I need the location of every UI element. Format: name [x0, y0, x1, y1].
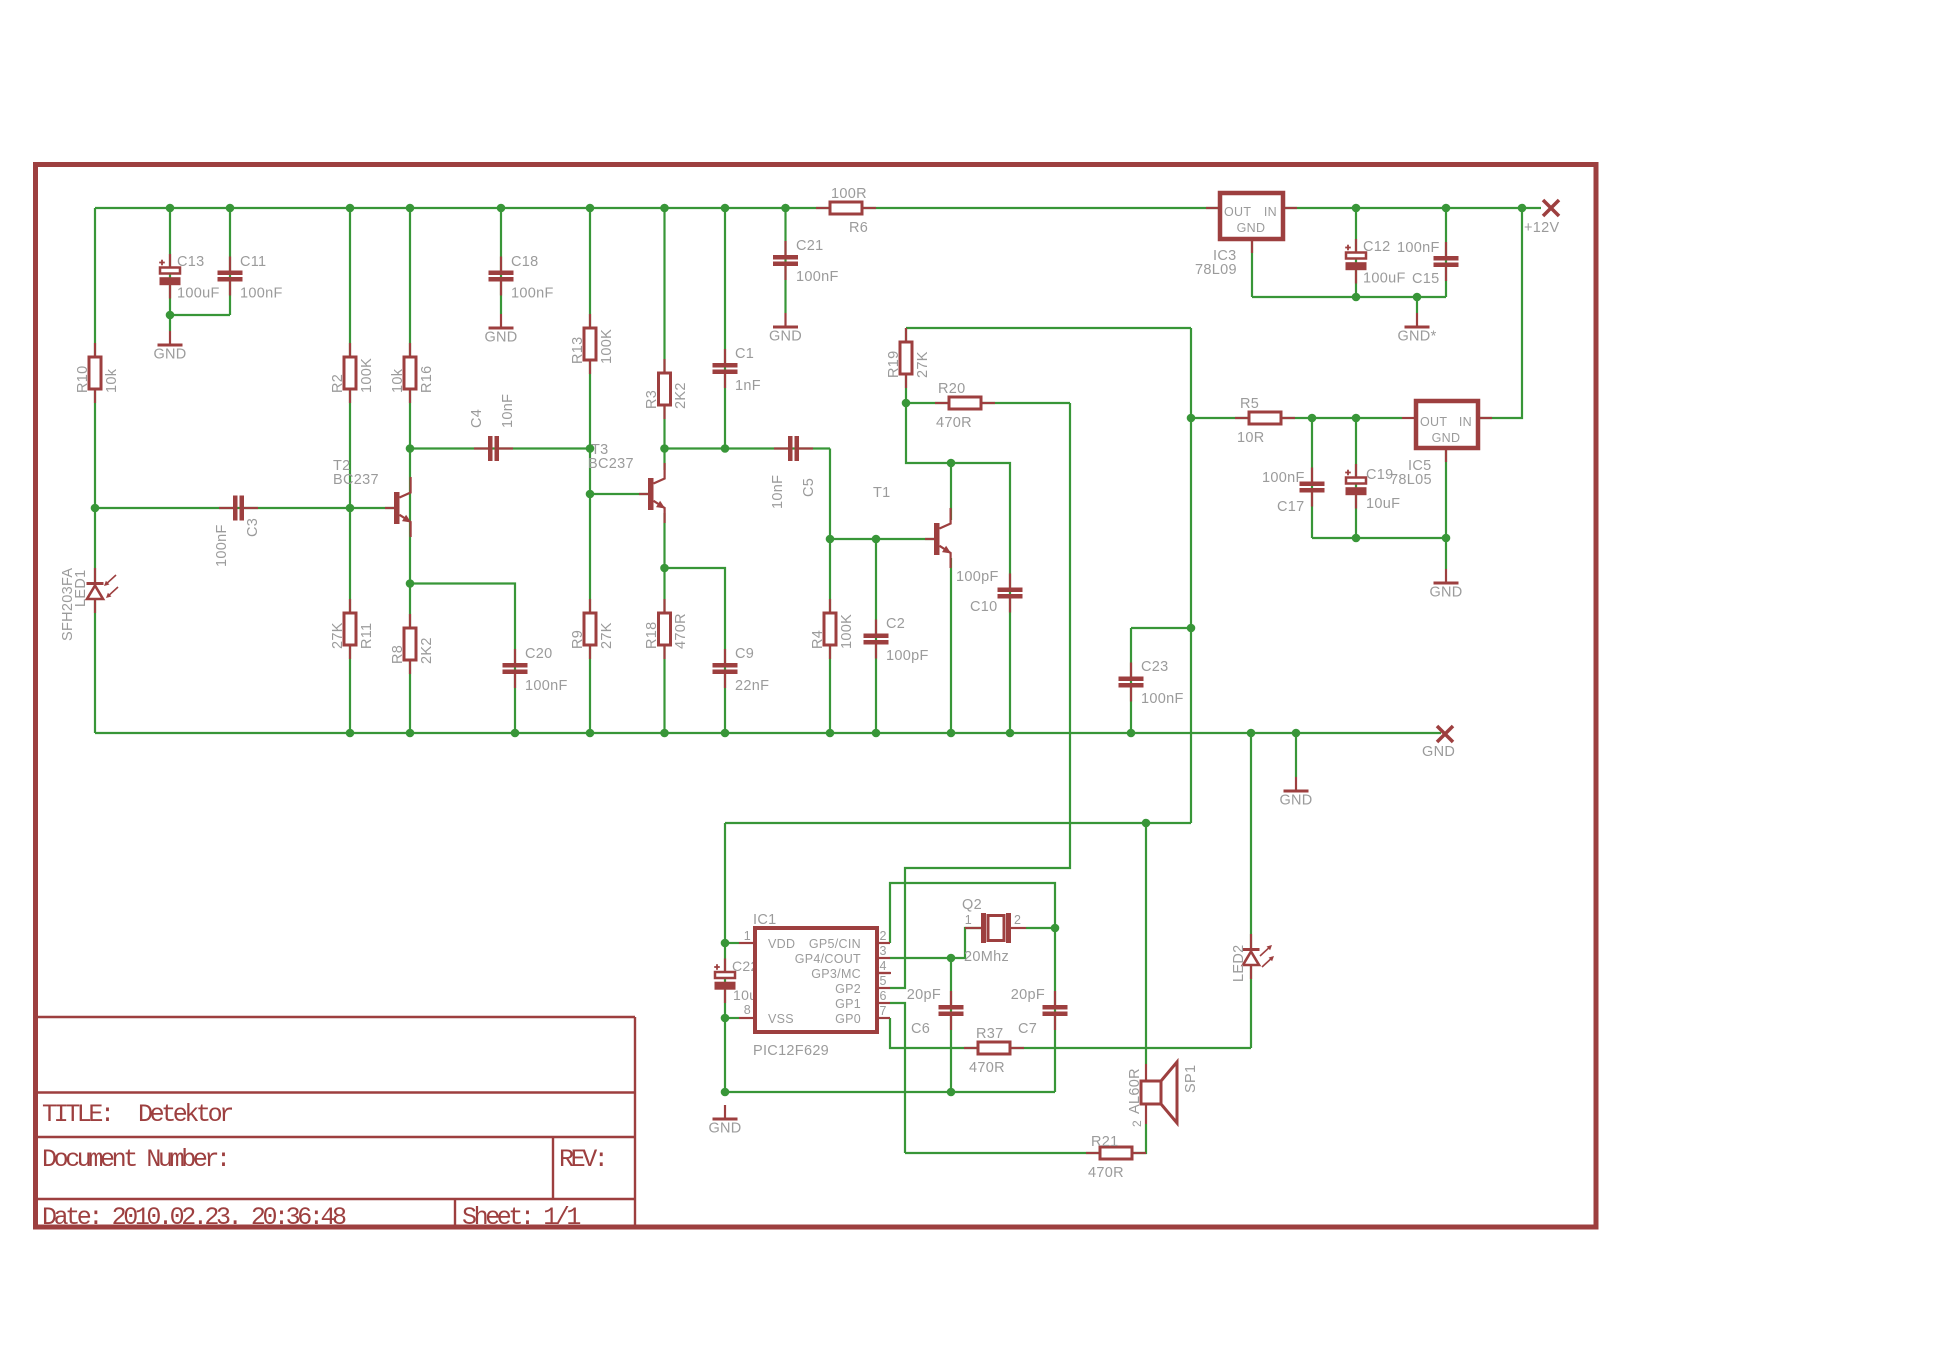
wire T1 emitter down	[950, 558, 952, 733]
capacitor C17	[1262, 468, 1325, 516]
ground below C21	[769, 313, 802, 345]
wire R13-R9 column	[589, 208, 591, 733]
wire crystal left jog	[951, 928, 981, 958]
wire LED2 column	[1250, 733, 1252, 1048]
svg-text:2: 2	[1130, 1120, 1144, 1127]
capacitor C4	[469, 394, 516, 461]
svg-text:2K2: 2K2	[673, 382, 689, 409]
resistor R3	[644, 359, 689, 419]
wire C23 top link	[1131, 627, 1191, 629]
svg-text:7: 7	[880, 1004, 887, 1018]
IC1 pin 8 number	[744, 1003, 751, 1017]
svg-text:C20: C20	[525, 646, 553, 662]
wire speaker bottom to R21	[905, 1124, 1146, 1153]
ground right of GND rail	[1279, 777, 1312, 809]
resistor R37	[964, 1026, 1024, 1076]
microcontroller IC1 PIC12F629	[739, 912, 890, 1059]
svg-text:C15: C15	[1412, 271, 1440, 287]
wire C12-C15 bottom join	[1252, 296, 1446, 298]
svg-text:20Mhz: 20Mhz	[964, 949, 1009, 965]
capacitor C10	[956, 569, 1023, 615]
svg-text:GP2: GP2	[835, 982, 861, 996]
IC1 pin 6 number	[880, 989, 887, 1003]
wire C6 column	[950, 958, 952, 1092]
wire R3-T3 column	[663, 208, 665, 470]
svg-text:OUT: OUT	[1420, 415, 1447, 429]
wire gnd stub right	[1295, 733, 1297, 777]
svg-text:1: 1	[744, 929, 751, 943]
svg-text:100R: 100R	[831, 186, 867, 202]
wire pin1 stub link	[725, 942, 739, 944]
crystal Q2 20MHz	[962, 897, 1026, 965]
capacitor C3	[214, 496, 261, 568]
svg-text:GP4/COUT: GP4/COUT	[795, 952, 861, 966]
svg-text:R11: R11	[359, 623, 375, 649]
svg-text:C2: C2	[886, 616, 905, 632]
wire pin8 stub link	[725, 1017, 739, 1019]
title block Document Number text	[42, 1145, 228, 1174]
svg-text:1nF: 1nF	[735, 378, 761, 394]
svg-text:IN: IN	[1459, 415, 1472, 429]
capacitor C5	[770, 436, 817, 509]
svg-text:C7: C7	[1018, 1021, 1037, 1037]
wire left column from +9V rail	[94, 208, 96, 733]
IC1 pin 2 number	[880, 929, 887, 943]
svg-text:100nF: 100nF	[525, 678, 568, 694]
svg-text:R21: R21	[1091, 1134, 1119, 1150]
svg-text:10R: 10R	[1237, 430, 1265, 446]
resistor R21	[1086, 1134, 1146, 1181]
IC1 pin 1 number	[744, 929, 751, 943]
svg-text:C1: C1	[735, 346, 754, 362]
svg-text:10k: 10k	[104, 368, 120, 393]
capacitor C18	[489, 254, 554, 302]
capacitor C6	[907, 987, 964, 1037]
svg-text:100nF: 100nF	[214, 524, 230, 567]
svg-text:REV:: REV:	[559, 1145, 605, 1174]
wire T1 collector riser	[950, 463, 952, 520]
wire IC5 gnd stem	[1445, 448, 1447, 569]
transistor T1	[873, 485, 951, 568]
svg-text:C11: C11	[240, 254, 266, 270]
resistor R13	[570, 314, 615, 374]
wire R20 node to C10	[906, 403, 1010, 733]
svg-text:3: 3	[880, 944, 887, 958]
svg-text:10k: 10k	[390, 368, 406, 393]
svg-text:GND*: GND*	[1397, 329, 1436, 345]
svg-text:10nF: 10nF	[500, 394, 516, 428]
terminal +12V	[1524, 200, 1559, 236]
svg-text:20pF: 20pF	[907, 987, 941, 1003]
title block box	[38, 1017, 635, 1227]
resistor R19	[886, 328, 931, 388]
wire GP4 line	[890, 957, 951, 959]
svg-text:27K: 27K	[599, 622, 615, 649]
svg-text:R13: R13	[570, 337, 586, 365]
svg-text:27K: 27K	[330, 622, 346, 649]
svg-text:GND: GND	[1279, 793, 1312, 809]
wire +9V top rail	[95, 207, 1541, 209]
svg-text:C21: C21	[796, 238, 824, 254]
svg-text:GND: GND	[1429, 585, 1462, 601]
svg-text:470R: 470R	[969, 1060, 1005, 1076]
svg-text:100uF: 100uF	[177, 286, 220, 302]
svg-text:LED1: LED1	[73, 570, 89, 607]
capacitor C12	[1345, 239, 1405, 287]
transistor T3	[588, 442, 665, 523]
terminal GND	[1422, 726, 1455, 760]
wire VDD horizontal net	[725, 822, 1191, 824]
capacitor C15	[1397, 240, 1459, 287]
svg-text:R6: R6	[849, 220, 868, 236]
svg-text:TITLE:: TITLE:	[42, 1100, 112, 1129]
svg-text:100nF: 100nF	[511, 286, 554, 302]
svg-text:100pF: 100pF	[956, 569, 999, 585]
resistor R18	[644, 599, 689, 659]
photodiode LED1	[60, 568, 118, 641]
resistor R10	[75, 343, 120, 403]
svg-text:GP3/MC: GP3/MC	[811, 967, 861, 981]
resistor R20	[935, 381, 995, 431]
svg-text:R3: R3	[644, 390, 660, 409]
wire T3 emitter to R18	[663, 513, 665, 733]
capacitor C13	[159, 254, 219, 302]
svg-text:GND: GND	[769, 329, 802, 345]
svg-text:100uF: 100uF	[1363, 271, 1406, 287]
capacitor C23	[1119, 659, 1184, 707]
svg-text:1: 1	[965, 913, 972, 927]
wire C23 column	[1130, 628, 1132, 733]
svg-text:GND: GND	[1432, 431, 1461, 445]
svg-text:100nF: 100nF	[240, 286, 283, 302]
svg-text:Sheet: 1/1: Sheet: 1/1	[462, 1203, 580, 1232]
resistor R8	[390, 614, 435, 674]
svg-text:GP1: GP1	[835, 997, 861, 1011]
resistor R2	[330, 343, 375, 403]
svg-text:470R: 470R	[936, 415, 972, 431]
wire C9 branch	[665, 568, 726, 733]
wire C21 column	[784, 208, 786, 313]
wire C18 column	[500, 208, 502, 314]
resistor R5	[1235, 396, 1295, 446]
wire C20 branch	[410, 584, 515, 734]
svg-text:470R: 470R	[673, 613, 689, 649]
svg-text:R37: R37	[976, 1026, 1004, 1042]
ground below IC5	[1429, 569, 1462, 601]
svg-text:C10: C10	[970, 599, 998, 615]
capacitor C20	[503, 646, 568, 694]
svg-text:GP5/CIN: GP5/CIN	[809, 937, 861, 951]
wire GP5 riser	[890, 883, 1055, 943]
wire GND* stem	[1416, 297, 1418, 313]
wire VDD column	[724, 823, 726, 1092]
capacitor C19	[1345, 464, 1400, 512]
IC1 pin 7 number	[880, 1004, 887, 1018]
speaker SP1 AL60R	[1127, 1062, 1199, 1127]
svg-text:100nF: 100nF	[1397, 240, 1440, 256]
svg-text:27K: 27K	[915, 351, 931, 378]
resistor R6	[816, 186, 876, 236]
svg-text:100K: 100K	[359, 358, 375, 393]
wire R4 column	[829, 539, 831, 733]
svg-text:10uF: 10uF	[1366, 496, 1400, 512]
wire C5 line	[665, 447, 831, 449]
capacitor C1	[713, 346, 761, 394]
svg-text:IN: IN	[1264, 205, 1277, 219]
wire R19 column	[905, 328, 907, 403]
svg-text:BC237: BC237	[333, 472, 379, 488]
svg-text:R20: R20	[938, 381, 966, 397]
ground below C18	[484, 314, 517, 346]
svg-text:+12V: +12V	[1524, 220, 1559, 236]
wire GP1 net	[890, 1003, 905, 1153]
capacitor C2	[864, 616, 929, 664]
voltage regulator IC5 78L05	[1390, 401, 1492, 488]
svg-text:GND: GND	[1237, 221, 1266, 235]
crystal pin 1 number	[965, 913, 972, 927]
svg-text:10nF: 10nF	[770, 475, 786, 509]
wire GP2 net riser	[890, 403, 1070, 988]
svg-text:100K: 100K	[599, 329, 615, 364]
crystal pin 2 number	[1014, 913, 1021, 927]
svg-text:C13: C13	[177, 254, 205, 270]
resistor R16	[390, 343, 435, 403]
wire C1 column	[724, 208, 726, 449]
wire crystal right link	[1026, 927, 1055, 929]
wire 5V vertical net	[1190, 328, 1192, 823]
svg-text:100K: 100K	[839, 614, 855, 649]
svg-text:78L09: 78L09	[1195, 262, 1237, 278]
svg-text:LED2: LED2	[1231, 945, 1247, 982]
wire C11 column	[229, 208, 231, 315]
title block Sheet text	[462, 1203, 580, 1232]
wire C15 column	[1445, 208, 1447, 297]
wire C2 column	[875, 539, 877, 733]
wire 5V gnd join	[1312, 537, 1446, 539]
resistor R9	[570, 599, 615, 659]
title block TITLE text	[42, 1100, 232, 1129]
IC1 pin 3 number	[880, 944, 887, 958]
capacitor C21	[773, 238, 839, 285]
wire C7 column	[1054, 928, 1056, 1092]
resistor R11	[330, 599, 375, 659]
svg-text:100nF: 100nF	[796, 269, 839, 285]
IC1 pin 5 number	[880, 974, 887, 988]
svg-text:6: 6	[880, 989, 887, 1003]
wire R19 top link	[906, 327, 1191, 329]
svg-text:R19: R19	[886, 351, 902, 379]
svg-text:100pF: 100pF	[886, 648, 929, 664]
wire C17 column	[1311, 418, 1313, 538]
svg-text:PIC12F629: PIC12F629	[753, 1043, 829, 1059]
svg-text:2: 2	[880, 929, 887, 943]
svg-text:IC1: IC1	[753, 912, 776, 928]
wire C12 column	[1355, 208, 1357, 297]
ground GND* below C12/C15	[1397, 313, 1436, 345]
wire IC5 in link	[1478, 208, 1522, 418]
svg-text:470R: 470R	[1088, 1165, 1124, 1181]
svg-text:AL60R: AL60R	[1127, 1068, 1143, 1114]
wire R2 column	[349, 208, 351, 733]
ground below C13/C11	[153, 315, 186, 363]
wire C4 line	[410, 447, 590, 449]
svg-text:C18: C18	[511, 254, 539, 270]
capacitor C9	[713, 646, 770, 694]
capacitor C11	[218, 254, 283, 302]
svg-text:22nF: 22nF	[735, 678, 769, 694]
svg-text:4: 4	[880, 959, 887, 973]
svg-text:C12: C12	[1363, 239, 1391, 255]
svg-text:100nF: 100nF	[1262, 470, 1305, 486]
title block Date text	[42, 1203, 346, 1232]
svg-text:GND: GND	[153, 347, 186, 363]
svg-text:GND: GND	[1422, 744, 1455, 760]
wire T3 base line	[590, 493, 648, 495]
svg-text:R2: R2	[330, 374, 346, 393]
wire IC3 gnd stem	[1251, 239, 1253, 297]
resistor R4	[810, 599, 855, 659]
wire C13 column	[169, 208, 171, 315]
svg-text:2K2: 2K2	[419, 637, 435, 664]
svg-text:20pF: 20pF	[1011, 987, 1045, 1003]
svg-text:8: 8	[744, 1003, 751, 1017]
svg-text:Q2: Q2	[962, 897, 982, 913]
svg-text:C6: C6	[911, 1021, 930, 1037]
wire GND bottom rail	[95, 732, 1441, 734]
svg-text:GND: GND	[484, 330, 517, 346]
title block REV text	[559, 1145, 605, 1174]
svg-text:R9: R9	[570, 630, 586, 649]
svg-text:R4: R4	[810, 630, 826, 649]
wire speaker top net	[1145, 823, 1147, 1064]
svg-text:Detektor: Detektor	[138, 1100, 232, 1129]
wire C3 input line	[95, 507, 394, 509]
svg-text:100nF: 100nF	[1141, 691, 1184, 707]
transistor T2	[333, 458, 411, 537]
led LED2	[1231, 934, 1274, 982]
svg-text:GND: GND	[708, 1121, 741, 1137]
svg-text:VDD: VDD	[768, 937, 795, 951]
IC1 pin 4 number	[880, 959, 887, 973]
svg-text:5: 5	[880, 974, 887, 988]
svg-text:GP0: GP0	[835, 1012, 861, 1026]
wire PIC gnd rail	[725, 1091, 1055, 1093]
wire R20 line	[906, 402, 1070, 404]
svg-text:VSS: VSS	[768, 1012, 794, 1026]
wire R5 line	[1191, 417, 1402, 419]
svg-text:T1: T1	[873, 485, 891, 501]
svg-text:R18: R18	[644, 622, 660, 650]
svg-text:Date: 2010.02.23. 20:36:48: Date: 2010.02.23. 20:36:48	[42, 1203, 346, 1232]
ground below IC1 VSS	[708, 1105, 741, 1137]
svg-text:78L05: 78L05	[1390, 472, 1432, 488]
IC1 pin 4 stub	[877, 972, 891, 974]
svg-text:SP1: SP1	[1183, 1065, 1199, 1093]
svg-text:C4: C4	[469, 409, 485, 428]
wire GP0 net	[890, 1018, 1251, 1048]
svg-text:C9: C9	[735, 646, 754, 662]
capacitor C7	[1011, 987, 1068, 1037]
svg-text:C17: C17	[1277, 499, 1305, 515]
svg-text:C3: C3	[245, 518, 261, 537]
svg-text:BC237: BC237	[588, 456, 634, 472]
svg-text:R5: R5	[1240, 396, 1259, 412]
svg-text:Document Number:: Document Number:	[42, 1145, 228, 1174]
svg-text:C5: C5	[801, 478, 817, 497]
svg-text:R8: R8	[390, 645, 406, 664]
wire C19 column	[1355, 418, 1357, 538]
wire R16-T2-R8 column	[409, 208, 411, 733]
wire C5 to T1 base	[830, 449, 934, 540]
capacitor C22	[714, 958, 766, 1003]
svg-text:C23: C23	[1141, 659, 1169, 675]
svg-text:R16: R16	[419, 366, 435, 394]
svg-text:2: 2	[1014, 913, 1021, 927]
svg-text:OUT: OUT	[1224, 205, 1251, 219]
svg-text:R10: R10	[75, 366, 91, 394]
wire C13-C11 join	[170, 314, 230, 316]
frame border	[36, 165, 1597, 1228]
voltage regulator IC3 78L09	[1195, 193, 1297, 278]
